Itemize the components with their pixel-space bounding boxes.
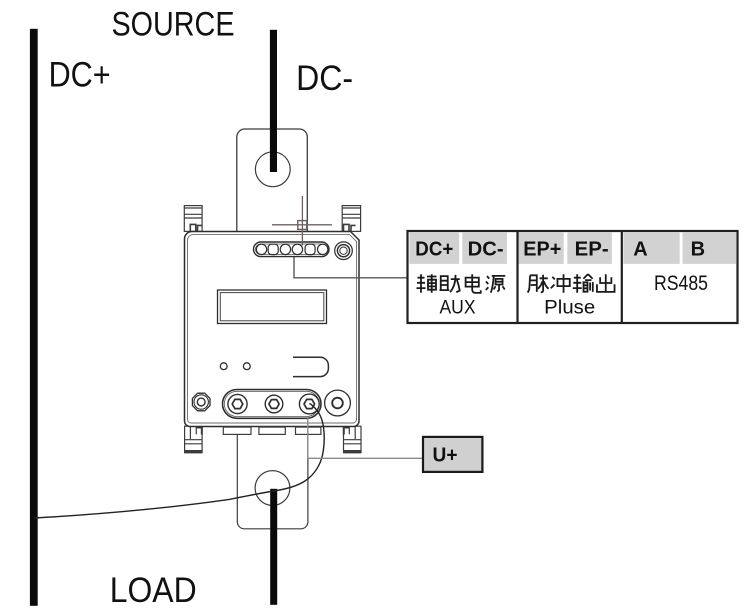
- svg-text:U+: U+: [433, 444, 458, 466]
- screw right: [325, 390, 351, 416]
- din clip bottom-left: [185, 426, 203, 453]
- din clip bottom-right: [344, 426, 362, 453]
- header cell DC+: [410, 232, 460, 264]
- table outer border: [408, 231, 738, 323]
- wire LOAD drop (thick): [270, 489, 277, 605]
- header cell EP-: [567, 232, 612, 264]
- top tab hole: [255, 152, 290, 187]
- LED indicator 1: [220, 363, 227, 370]
- bottom busbar tab of meter: [237, 434, 308, 528]
- crosshair vertical (alignment mark): [301, 196, 303, 246]
- meter body outline (inner): [188, 235, 357, 423]
- text 脉冲输出 (drawn strokes): [528, 274, 615, 293]
- char 电: [466, 274, 481, 293]
- svg-text:Pluse: Pluse: [544, 298, 595, 319]
- svg-text:SOURCE: SOURCE: [112, 5, 235, 43]
- wire DC- drop (thick): [270, 30, 277, 172]
- char 源: [486, 276, 506, 293]
- hex screw left: [192, 393, 210, 411]
- bottom connector rib 2: [259, 427, 285, 434]
- svg-text:EP+: EP+: [523, 239, 561, 261]
- char 冲: [551, 274, 570, 292]
- svg-text:RS485: RS485: [654, 271, 708, 295]
- strip hole 1: [256, 244, 266, 254]
- header cell EP+: [519, 232, 564, 264]
- terminal table: [408, 231, 738, 323]
- svg-text:DC-: DC-: [468, 239, 504, 261]
- svg-text:A: A: [633, 239, 647, 261]
- header cell A: [623, 232, 679, 264]
- main terminal block (stadium): [223, 390, 322, 419]
- table group border 1: [516, 231, 518, 323]
- din clip top-left: [184, 206, 202, 232]
- terminal 2: [265, 395, 283, 413]
- char 脉: [528, 275, 549, 293]
- svg-text:EP-: EP-: [575, 239, 609, 261]
- char 输: [573, 274, 593, 293]
- bottom connector rib 1: [223, 427, 251, 434]
- din clip top-right: [342, 206, 360, 232]
- LED indicator 2: [243, 363, 250, 370]
- wire DC+ bus (thick): [30, 29, 38, 606]
- aux terminal strip (stadium): [254, 242, 330, 257]
- strip hole 4: [292, 244, 302, 254]
- svg-text:B: B: [691, 239, 705, 261]
- header cell B: [683, 232, 737, 264]
- wire U+ sense: [308, 417, 423, 459]
- bottom tab hole: [255, 471, 290, 506]
- wire voltage sense (curved, bus to bottom-right terminal): [34, 403, 324, 518]
- wire aux terminals to table: [294, 257, 407, 278]
- char 辅: [417, 274, 437, 292]
- strip hole 5: [305, 244, 315, 254]
- meter body outline (outer): [185, 232, 360, 427]
- terminal 1: [228, 394, 247, 413]
- header texts: [415, 239, 705, 261]
- terminal 3: [299, 394, 319, 414]
- text 辅助电源 (drawn strokes): [417, 274, 506, 293]
- U+ label box: [423, 437, 482, 472]
- button (open-left U shape): [293, 357, 328, 376]
- svg-text:DC-: DC-: [296, 59, 353, 98]
- table group border 2: [621, 231, 623, 323]
- char 助: [440, 275, 460, 292]
- crosshair square: [298, 221, 307, 230]
- svg-text:DC+: DC+: [49, 56, 111, 95]
- round connector top-right: [335, 242, 353, 260]
- strip hole 2: [268, 244, 278, 254]
- header cell DC-: [462, 232, 507, 264]
- strip hole 6: [318, 244, 328, 254]
- svg-text:LOAD: LOAD: [110, 571, 197, 610]
- top busbar tab of meter: [237, 129, 307, 232]
- strip hole 3: [280, 244, 290, 254]
- LCD window: [218, 290, 327, 324]
- char 出: [597, 274, 615, 292]
- svg-text:DC+: DC+: [415, 239, 453, 261]
- crosshair horizontal: [272, 224, 332, 226]
- svg-text:AUX: AUX: [440, 298, 476, 319]
- bottom connector rib 3: [296, 427, 321, 434]
